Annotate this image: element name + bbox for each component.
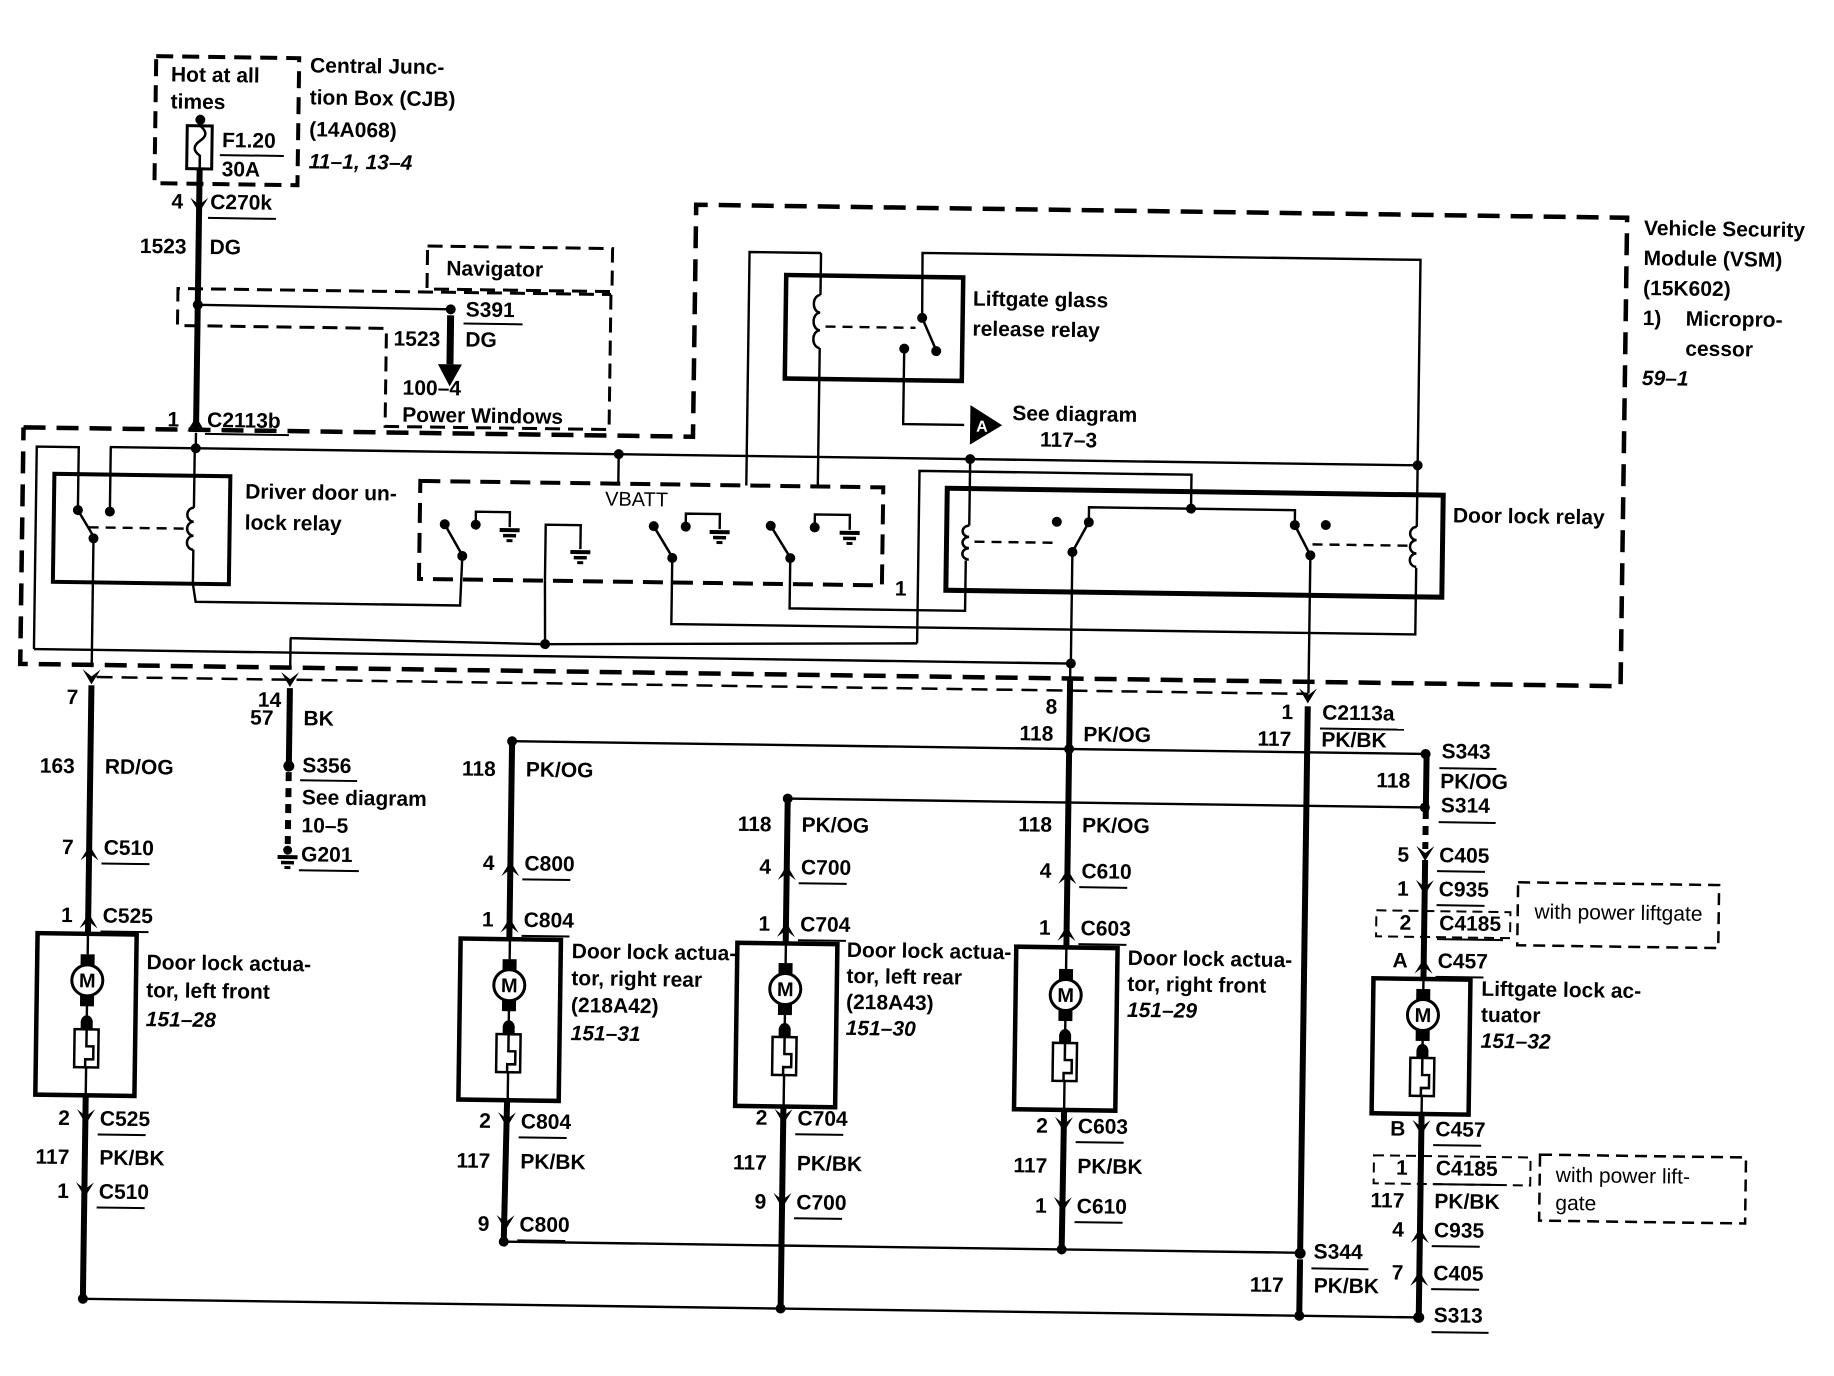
wire: VBATT switch 3 to door lock relay right coil (net G)	[671, 557, 1416, 634]
off-page reference A: See diagram 117-3	[970, 402, 1138, 453]
splice S391	[446, 298, 523, 324]
svg-text:S313: S313	[1434, 1304, 1483, 1328]
junction on 1523 DG wire	[193, 300, 203, 310]
wire: right front actuator return	[1062, 1110, 1064, 1250]
svg-text:tor, left rear: tor, left rear	[846, 965, 962, 990]
svg-text:2: 2	[756, 1107, 768, 1130]
actuator: Door lock actuator, right front	[1014, 947, 1118, 1111]
svg-text:C2113a: C2113a	[1322, 702, 1395, 726]
wire: VBATT feed bus (line B)	[110, 447, 1419, 465]
svg-text:Door lock actua-: Door lock actua-	[146, 951, 311, 976]
connector C800 pin 9	[478, 1213, 570, 1241]
svg-text:C4185: C4185	[1436, 1157, 1499, 1181]
svg-text:See diagram: See diagram	[302, 786, 427, 811]
actuator: Door lock actuator, right rear	[458, 939, 561, 1101]
svg-text:C4185: C4185	[1439, 912, 1502, 936]
wire: right rear actuator feed	[509, 741, 512, 937]
splice S314	[1420, 794, 1496, 823]
svg-text:C510: C510	[99, 1180, 150, 1204]
svg-text:lock relay: lock relay	[245, 511, 343, 535]
svg-text:118: 118	[1019, 722, 1054, 745]
wire arrow: 1523 DG to Power Windows 100-4	[392, 315, 564, 429]
svg-text:C603: C603	[1078, 1115, 1129, 1139]
label: Door lock actuator, left rear (218A43) 151-30	[846, 939, 1012, 1042]
svg-text:BK: BK	[303, 707, 334, 730]
junction: right rear feed	[507, 736, 517, 746]
svg-text:Power Windows: Power Windows	[402, 404, 563, 429]
wire: S314 to C405 (dashed)	[1422, 810, 1429, 849]
svg-text:4: 4	[759, 856, 771, 879]
svg-text:M: M	[79, 970, 96, 992]
driver relay coil	[88, 447, 194, 550]
block: VBATT dashed box	[419, 481, 883, 585]
wire: driver relay pivot to feed bus (net A top)	[34, 447, 79, 650]
connector C457 pin B	[1390, 1118, 1486, 1146]
wire: splice rail S314 (118 PK/OG)	[788, 799, 1425, 808]
junction: C2113b wire on feed bus	[191, 433, 201, 454]
svg-text:118: 118	[738, 813, 773, 836]
connector C700 pin 4	[759, 856, 851, 884]
splice S343	[1420, 740, 1496, 769]
svg-text:PK/OG: PK/OG	[801, 814, 869, 838]
fuse F1.20 30A	[186, 115, 284, 182]
wire: S356 to G201 (dashed)	[288, 772, 289, 844]
svg-text:Hot at all: Hot at all	[171, 63, 260, 87]
svg-text:59–1: 59–1	[1642, 367, 1689, 391]
svg-text:gate: gate	[1555, 1192, 1596, 1216]
svg-text:118: 118	[1376, 769, 1411, 792]
connector C510 pin 1	[57, 1180, 149, 1208]
svg-text:C800: C800	[524, 852, 575, 876]
wire label 118 PK/OG (right front)	[1018, 813, 1150, 838]
connector C525 pin 2	[58, 1107, 151, 1135]
wire: door lock relay pin 1 riser	[290, 462, 1191, 658]
svg-text:Door lock actua-: Door lock actua-	[572, 940, 737, 965]
svg-text:Driver door un-: Driver door un-	[245, 480, 397, 505]
svg-text:C800: C800	[519, 1213, 570, 1237]
label: Door lock actuator, left front 151-28	[146, 951, 312, 1033]
wire label 118 PK/OG (left rear)	[738, 813, 870, 838]
wire: switch 2 output to C2113a	[1308, 555, 1310, 693]
svg-text:Navigator: Navigator	[446, 257, 543, 281]
svg-text:M: M	[1414, 1005, 1431, 1027]
label: Vehicle Security Module (VSM) (15K602) 1) Microprocessor 59-1	[1642, 217, 1806, 392]
boundary: inline harness dashed line	[97, 677, 1309, 694]
svg-text:Door lock actua-: Door lock actua-	[847, 939, 1012, 964]
relay: Driver door unlock relay box	[53, 474, 230, 584]
svg-text:PK/BK: PK/BK	[1321, 729, 1387, 753]
wire: net A to junction on wire 8	[34, 644, 1076, 669]
svg-text:117: 117	[1250, 1274, 1284, 1297]
svg-text:4: 4	[1392, 1219, 1404, 1242]
VBATT switch 1	[439, 519, 468, 561]
svg-text:Door lock relay: Door lock relay	[1453, 504, 1605, 529]
svg-text:C804: C804	[524, 909, 575, 933]
junction: left rear feed	[783, 794, 793, 804]
right rear actuator motor M	[493, 939, 525, 1011]
svg-text:C405: C405	[1433, 1262, 1484, 1286]
svg-text:C935: C935	[1434, 1219, 1485, 1243]
svg-text:C704: C704	[800, 913, 851, 937]
svg-text:release relay: release relay	[972, 318, 1100, 343]
svg-text:Liftgate glass: Liftgate glass	[973, 288, 1109, 313]
svg-text:(15K602): (15K602)	[1643, 277, 1731, 301]
svg-text:DG: DG	[465, 329, 497, 352]
VBATT switch 3	[648, 521, 678, 563]
svg-text:S391: S391	[466, 299, 516, 323]
connector C457 pin A	[1392, 949, 1488, 977]
wire label 117 PK/BK (left front)	[35, 1146, 165, 1171]
relay: Liftgate glass release relay box	[785, 275, 963, 381]
svg-text:151–31: 151–31	[570, 1022, 640, 1046]
VBATT switch 4	[765, 521, 796, 563]
svg-text:7: 7	[62, 836, 74, 859]
label: Door lock actuator, right rear (218A42) 151-31	[570, 940, 736, 1047]
svg-text:151–32: 151–32	[1480, 1030, 1551, 1054]
connector C935 pin 4	[1392, 1219, 1485, 1247]
svg-text:1: 1	[1039, 917, 1051, 940]
wire label 118 PK/OG (wire 8)	[1019, 722, 1151, 747]
svg-text:117: 117	[35, 1146, 69, 1169]
node: Navigator option box	[427, 246, 613, 292]
junction: feed bus right end / door lock relay right coil top	[1413, 460, 1423, 470]
left front actuator lock mechanism	[74, 995, 99, 1095]
connector C800 pin 4	[483, 852, 575, 880]
wire: liftgate relay output to diagram A	[903, 349, 965, 425]
door lock relay left coil	[962, 459, 1055, 561]
svg-text:times: times	[170, 90, 225, 114]
dashed region: Navigator S391 branch	[176, 289, 611, 430]
wire: splice rail S313 (117 PK/BK return)	[78, 1294, 1419, 1323]
svg-text:2: 2	[1036, 1115, 1048, 1138]
svg-text:7: 7	[1392, 1262, 1404, 1285]
wire: to splice S391	[198, 305, 451, 310]
connector C4185 pin 2 (with power liftgate)	[1376, 910, 1510, 940]
actuator: Door lock actuator, left rear	[735, 943, 837, 1107]
connector C603 pin 2	[1036, 1115, 1128, 1143]
connector C704 pin 2	[756, 1107, 849, 1135]
wire 8: door lock relay to right front actuator	[1042, 663, 1070, 948]
wire label 163 RD/OG	[40, 755, 174, 780]
VBATT ground 1	[471, 512, 520, 541]
svg-text:Vehicle Security: Vehicle Security	[1644, 217, 1806, 242]
svg-text:S314: S314	[1441, 794, 1491, 818]
svg-text:(14A068): (14A068)	[309, 118, 397, 142]
svg-text:(218A43): (218A43)	[846, 991, 934, 1015]
connector C935 pin 1	[1397, 878, 1490, 906]
svg-text:9: 9	[478, 1213, 490, 1236]
svg-text:C405: C405	[1439, 844, 1490, 868]
svg-text:G201: G201	[301, 843, 353, 867]
right front actuator lock mechanism	[1052, 1010, 1077, 1110]
wire: right rear actuator return	[504, 1100, 507, 1242]
svg-text:C700: C700	[796, 1191, 847, 1215]
connector C405 pin 7	[1391, 1262, 1484, 1290]
connector C804 pin 1	[482, 908, 575, 936]
svg-text:M: M	[501, 975, 518, 997]
svg-text:1: 1	[61, 904, 73, 927]
svg-text:1: 1	[758, 913, 770, 936]
svg-text:1): 1)	[1643, 307, 1662, 330]
svg-text:PK/OG: PK/OG	[1083, 723, 1151, 747]
left rear actuator motor M	[769, 943, 801, 1015]
svg-text:C610: C610	[1077, 1195, 1128, 1219]
svg-text:8: 8	[1045, 696, 1057, 719]
label: Door lock actuator, right front 151-29	[1127, 947, 1293, 1024]
svg-text:M: M	[777, 979, 794, 1001]
svg-text:See diagram: See diagram	[1012, 402, 1137, 427]
connector C525 pin 1	[61, 904, 154, 932]
connector C4185 pin 1 (with power liftgate)	[1374, 1155, 1531, 1185]
svg-text:Door lock actua-: Door lock actua-	[1128, 947, 1293, 972]
right front actuator motor M	[1050, 947, 1082, 1021]
svg-text:118: 118	[1018, 813, 1053, 836]
svg-text:151–28: 151–28	[146, 1008, 217, 1032]
power source box: Hot at all times (Central Junction Box)	[154, 56, 299, 185]
svg-text:S344: S344	[1313, 1240, 1363, 1264]
svg-text:C603: C603	[1080, 917, 1131, 941]
module outline: Vehicle Security Module (VSM) dashed boundary	[20, 195, 1627, 686]
label: Door lock relay	[1453, 504, 1605, 529]
svg-text:1: 1	[1035, 1195, 1047, 1218]
svg-text:151–30: 151–30	[846, 1017, 917, 1041]
svg-text:(218A42): (218A42)	[571, 994, 659, 1018]
svg-text:151–29: 151–29	[1127, 999, 1198, 1023]
wire: driver relay NC contact to feed bus	[109, 447, 112, 511]
connector C704 pin 1	[758, 913, 851, 941]
svg-text:C510: C510	[104, 837, 155, 861]
wire: fuse output, 1523 DG	[196, 169, 200, 428]
wire: S343 to liftgate actuator	[1423, 754, 1430, 807]
svg-text:1: 1	[895, 578, 907, 601]
svg-text:7: 7	[66, 686, 78, 709]
svg-text:PK/BK: PK/BK	[797, 1152, 863, 1176]
wire label 117 PK/BK (right front)	[1013, 1154, 1143, 1179]
option box: with power liftgate	[1517, 882, 1719, 948]
splice S356	[283, 754, 357, 781]
svg-text:A: A	[1392, 949, 1407, 972]
svg-text:PK/OG: PK/OG	[1440, 770, 1508, 794]
option box: with power liftgate (return)	[1539, 1155, 1746, 1224]
junction: left coil on feed bus	[965, 454, 975, 464]
left rear actuator lock mechanism	[772, 1004, 797, 1107]
svg-text:30A: 30A	[221, 158, 260, 182]
wire label 118 PK/OG (liftgate)	[1376, 769, 1508, 794]
svg-text:Central Junc-: Central Junc-	[310, 54, 445, 79]
connector C510 pin 7	[62, 836, 154, 864]
svg-text:2: 2	[58, 1107, 70, 1130]
connector C2113b pin 1	[167, 408, 289, 435]
svg-text:57: 57	[250, 707, 274, 730]
left front actuator motor M	[71, 934, 103, 1007]
connector C804 pin 2	[479, 1110, 572, 1138]
svg-text:C457: C457	[1438, 950, 1489, 974]
liftgate relay switch	[899, 313, 942, 357]
wire label 57 BK	[250, 707, 334, 731]
junction: VBATT pin feed	[613, 449, 623, 483]
splice S344	[1294, 1240, 1368, 1269]
svg-text:PK/OG: PK/OG	[1082, 814, 1150, 838]
svg-text:117: 117	[456, 1149, 490, 1172]
svg-text:1523: 1523	[140, 235, 187, 259]
door lock relay right coil	[1312, 464, 1417, 567]
svg-text:with power lift-: with power lift-	[1555, 1164, 1691, 1189]
wire: liftgate actuator return	[1419, 1114, 1422, 1317]
connector C405 pin 5	[1397, 844, 1490, 872]
svg-text:C700: C700	[801, 856, 852, 880]
svg-text:C270k: C270k	[210, 191, 273, 215]
svg-text:9: 9	[754, 1191, 766, 1214]
svg-text:117: 117	[1013, 1154, 1047, 1177]
actuator: Door lock actuator, left front	[35, 933, 136, 1096]
svg-text:DG: DG	[209, 236, 241, 259]
svg-text:118: 118	[462, 758, 497, 781]
svg-text:1: 1	[1397, 878, 1409, 901]
svg-text:M: M	[1057, 985, 1074, 1007]
liftgate relay coil	[746, 252, 916, 488]
driver relay switch	[72, 505, 115, 544]
pin 1 label on door lock relay feed	[895, 578, 907, 601]
wire: left rear actuator return	[781, 1107, 784, 1309]
svg-text:117: 117	[1370, 1189, 1404, 1212]
wire 14: to ground splice	[257, 638, 300, 763]
svg-text:4: 4	[1040, 860, 1052, 883]
ground G201	[277, 843, 359, 871]
door lock relay switch 2	[1289, 520, 1331, 561]
svg-text:117: 117	[733, 1151, 767, 1174]
wire: left front actuator return	[83, 1095, 86, 1298]
door lock relay switch 1	[1051, 517, 1094, 558]
connector C610 pin 4	[1040, 860, 1132, 888]
actuator: Liftgate lock actuator box	[1372, 978, 1471, 1114]
wire: door lock relay switch commons	[1089, 502, 1295, 525]
svg-text:A: A	[976, 419, 988, 436]
wire label 117 PK/BK (right rear)	[456, 1149, 586, 1174]
svg-text:C457: C457	[1435, 1118, 1486, 1142]
splice S313	[1413, 1304, 1489, 1333]
wire: splice rail S343 (118 PK/OG)	[512, 741, 1426, 754]
connector C2113a pin 1	[1281, 688, 1404, 730]
svg-text:RD/OG: RD/OG	[105, 756, 174, 780]
liftgate actuator motor M	[1407, 979, 1439, 1041]
svg-text:VBATT: VBATT	[605, 488, 668, 511]
svg-text:1: 1	[57, 1180, 69, 1203]
svg-text:C935: C935	[1439, 878, 1490, 902]
svg-text:PK/BK: PK/BK	[99, 1147, 165, 1171]
svg-text:4: 4	[483, 852, 495, 875]
label: Central Junction Box (CJB) (14A068) 11-1, 13-4	[309, 54, 456, 175]
wire: splice rail S344	[499, 1237, 1301, 1258]
svg-text:PK/BK: PK/BK	[1077, 1155, 1143, 1179]
wire: C405 to liftgate actuator	[1423, 860, 1425, 979]
svg-text:PK/BK: PK/BK	[1434, 1190, 1500, 1214]
svg-text:C525: C525	[103, 905, 154, 929]
svg-text:S356: S356	[302, 754, 351, 778]
svg-text:2: 2	[1399, 912, 1411, 935]
label: See diagram 10-5	[301, 786, 427, 839]
VBATT ground 4	[809, 514, 859, 543]
VBATT ground 2	[570, 552, 590, 563]
wire label 118 PK/OG (right rear)	[462, 758, 594, 783]
label: Driver door unlock relay	[245, 480, 397, 536]
svg-text:1523: 1523	[393, 328, 440, 352]
svg-text:Module (VSM): Module (VSM)	[1643, 247, 1782, 272]
svg-text:tor, left front: tor, left front	[146, 979, 270, 1004]
svg-text:C704: C704	[797, 1107, 848, 1131]
svg-text:S343: S343	[1441, 740, 1490, 764]
wire: VBATT switch 4 to door lock relay left coil (net F)	[790, 558, 966, 611]
liftgate actuator lock mechanism	[1410, 1030, 1435, 1114]
label: Liftgate lock actuator 151-32	[1480, 978, 1641, 1055]
svg-text:tuator: tuator	[1481, 1004, 1541, 1028]
wire: S344 to S313 rail	[1296, 1259, 1303, 1315]
label: Liftgate glass release relay	[972, 288, 1108, 343]
svg-text:C804: C804	[521, 1110, 572, 1134]
wire label 1523 DG	[140, 235, 242, 259]
svg-text:2: 2	[479, 1110, 491, 1133]
svg-text:1: 1	[482, 908, 494, 931]
wire: left rear actuator feed	[786, 799, 788, 944]
svg-text:100–4: 100–4	[402, 377, 461, 401]
svg-text:163: 163	[40, 755, 75, 778]
svg-text:5: 5	[1397, 844, 1409, 867]
VBATT ground 2 feed wire	[544, 525, 581, 645]
wire label 117 PK/BK (liftgate)	[1370, 1189, 1500, 1214]
VBATT ground 3	[680, 514, 729, 543]
svg-text:Liftgate lock ac-: Liftgate lock ac-	[1481, 978, 1641, 1003]
svg-text:117–3: 117–3	[1040, 429, 1098, 453]
svg-text:cessor: cessor	[1685, 338, 1753, 362]
connector C603 pin 1	[1039, 917, 1131, 945]
svg-text:tion Box (CJB): tion Box (CJB)	[310, 86, 456, 111]
svg-text:PK/BK: PK/BK	[1314, 1274, 1380, 1298]
right rear actuator lock mechanism	[496, 1000, 521, 1100]
connector C270k pin 4	[171, 190, 276, 218]
svg-text:1: 1	[1396, 1157, 1408, 1180]
svg-text:B: B	[1390, 1118, 1405, 1141]
wire: driver relay coil to VBATT switch 1 (net E)	[193, 550, 463, 606]
svg-text:with power liftgate: with power liftgate	[1533, 900, 1702, 925]
wire: liftgate relay switch common to feed bus	[920, 253, 1421, 465]
svg-text:PK/BK: PK/BK	[520, 1150, 586, 1174]
svg-text:tor, right rear: tor, right rear	[571, 967, 702, 992]
svg-text:F1.20: F1.20	[222, 129, 276, 153]
connector C700 pin 9	[754, 1191, 846, 1219]
wire label 117 PK/BK (C2113a)	[1257, 728, 1387, 753]
svg-text:117: 117	[1257, 728, 1291, 751]
svg-text:Micropro-: Micropro-	[1686, 308, 1783, 332]
svg-text:tor, right front: tor, right front	[1127, 973, 1266, 998]
junction: right front feed	[1064, 744, 1074, 754]
svg-text:C525: C525	[100, 1108, 151, 1132]
svg-text:PK/OG: PK/OG	[526, 758, 594, 782]
svg-text:4: 4	[171, 190, 183, 213]
wire 7: driver relay to left front actuator	[63, 538, 102, 933]
svg-text:11–1, 13–4: 11–1, 13–4	[309, 150, 413, 174]
wire: switch 1 output to wire 8	[1071, 552, 1073, 663]
wire label 117 PK/BK (below S344)	[1250, 1274, 1380, 1299]
svg-text:10–5: 10–5	[301, 814, 348, 838]
svg-text:1: 1	[1281, 701, 1293, 724]
wire: C2113a to S344	[1300, 706, 1308, 1253]
connector C610 pin 1	[1035, 1195, 1127, 1223]
wire label 117 PK/BK (left rear)	[733, 1151, 863, 1176]
svg-text:C610: C610	[1081, 860, 1132, 884]
relay: Door lock relay box	[946, 488, 1443, 597]
